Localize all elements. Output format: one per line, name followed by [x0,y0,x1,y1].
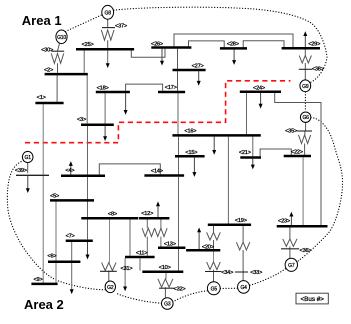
load arrow bus 6 [71,263,73,290]
bus 7 [66,239,93,242]
svg-text:<3>: <3> [77,117,86,123]
bus 8 [81,217,138,220]
generator G10 [56,30,67,44]
bus 38 tick [299,68,312,70]
bus 17 [158,91,185,94]
svg-text:<11>: <11> [136,251,148,257]
load arrow bus 39 [27,176,29,190]
wire 8-11 [129,219,131,255]
svg-text:<17>: <17> [165,85,177,91]
bus 12 [139,217,169,220]
load arrow bus 25 [107,50,109,64]
wire 1-2 [56,75,58,102]
svg-text:<37>: <37> [115,23,127,29]
boundary dotted G3 to G2 [115,293,161,303]
svg-text:G2: G2 [107,285,114,291]
wire bus8 to W31 [109,219,111,262]
bus 20 [186,249,220,252]
bus 14 [144,174,184,177]
transformer W 12-13 [155,228,168,236]
transformer W 2-30 [51,53,64,63]
bus 9 [31,283,57,286]
wire 22-23 [302,157,304,225]
svg-text:Area 1: Area 1 [22,13,62,28]
wire W35 to bus 22 [304,144,306,155]
svg-text:<39>: <39> [15,168,27,174]
svg-text:<22>: <22> [291,150,303,156]
svg-text:G3: G3 [164,302,171,308]
bus 31 tick [100,270,117,272]
svg-text:Area 2: Area 2 [24,297,64,312]
transformer W 23-36 [283,239,297,247]
load arrow bus 23 up [290,215,292,225]
bus 19 [208,224,251,227]
wire 4-14 elbow [99,164,160,175]
wire bus10 to W32 [165,273,167,279]
bus 36 tick [281,248,299,250]
wire 16-24 [246,93,248,134]
bus 39 [16,174,49,176]
svg-text:<20>: <20> [202,244,214,250]
wire 26-28 [189,41,225,47]
legend box Bus # [296,293,328,304]
wire W32 to tick32 to G3 [164,287,166,297]
bus 25 [76,48,134,51]
wire W12a to bus 11 [146,237,148,256]
bus 5 [50,199,94,202]
bus 15 [175,155,205,158]
wire G6 to tick35 [305,122,307,131]
generator G2 [105,281,115,293]
wire W38 to tick38 to G9 [304,63,306,80]
bus 6 [48,261,80,264]
bus 1 [35,102,63,105]
transformer W 10-32 [158,279,173,287]
svg-text:<5>: <5> [50,194,59,200]
wire 28-29 [243,41,284,48]
wire W31 to tick31 to G2 [108,271,110,281]
wire bus19 to W33 [242,226,244,242]
transformer W 12-11 [142,228,155,236]
wire 7-6 [71,242,73,261]
wire 5-6 [55,202,57,261]
boundary dotted G5 to G3 [173,291,208,302]
svg-text:<25>: <25> [82,42,94,48]
svg-text:<4>: <4> [65,168,74,174]
wire W12b to bus 13 [160,237,162,247]
boundary dotted G7 to G4 [250,269,286,285]
wire 16-15-14-13-10 spine [178,137,180,156]
svg-text:G8: G8 [105,10,112,16]
svg-text:G10: G10 [57,35,66,41]
wire G8 to bus37 tick [107,19,109,27]
svg-text:G7: G7 [288,263,295,269]
load arrow bus 18 [125,93,127,111]
wire 16-21 [252,137,254,157]
svg-text:G5: G5 [211,286,218,292]
svg-text:<14>: <14> [151,169,163,175]
bus 28 [220,47,247,50]
wire 3-4 [87,126,89,174]
wire 2-25 [83,50,85,72]
load arrow bus 26 [161,49,163,62]
bus 2 [45,73,88,76]
bus 18 [96,91,130,94]
bus 37 tick [102,27,115,29]
transformer W 8-31 [102,263,116,271]
svg-text:<12>: <12> [141,211,153,217]
bus 30 tick [51,50,64,52]
svg-text:<32>: <32> [174,286,186,292]
wire 27-17 [177,71,179,91]
bus 24 [240,91,281,94]
transformer W 19-20 [207,232,221,240]
svg-text:<26>: <26> [151,42,163,48]
bus 13 [158,247,185,250]
svg-text:<Bus #>: <Bus #> [300,296,324,303]
wire 17-18 elbow [126,84,163,91]
wire 21-22 elbow [260,149,291,156]
bus 27 [173,69,206,72]
boundary dotted G4 to G5 [221,287,238,289]
boundary dotted G9 to G6 [304,92,306,112]
svg-text:<28>: <28> [227,41,239,47]
wire bus20 to W34 [213,252,215,262]
bus 3 [81,123,114,126]
svg-text:<27>: <27> [192,64,204,70]
load arrow bus 11 [124,258,126,287]
load arrow bus 16 [213,137,215,151]
load arrow bus 24 [260,93,262,105]
load arrow bus 15 [193,157,195,173]
generator G5 [207,282,220,295]
svg-text:<23>: <23> [278,219,290,225]
svg-text:<35>: <35> [285,129,297,135]
wire W36 to tick36 to G7 [289,246,291,258]
svg-text:<33>: <33> [250,270,262,276]
wire 23-24 route [275,93,321,225]
wire 39-9 [42,176,44,283]
svg-text:G6: G6 [302,115,309,121]
generator G1 [22,151,33,162]
bus 29 [282,47,320,50]
bus 22 [284,155,311,158]
transformer W 29-38 [299,56,311,64]
transformer W 20-34 [207,262,221,270]
bus 11 [125,256,155,259]
load arrow bus 20 up [198,231,200,249]
bus 26 [151,46,191,49]
svg-text:G1: G1 [25,155,32,161]
generator G9 [300,80,311,92]
svg-text:G9: G9 [302,84,309,90]
svg-text:<9>: <9> [33,277,42,283]
bus 33 tick [235,271,248,273]
svg-text:G4: G4 [240,285,247,291]
svg-text:<21>: <21> [239,150,251,156]
svg-text:<19>: <19> [235,218,247,224]
svg-text:<13>: <13> [164,241,176,247]
svg-text:<7>: <7> [66,233,75,239]
wire 4-5-8-7 [87,177,89,240]
load arrow bus 7 [87,242,89,255]
wire 6-9 [55,263,57,283]
wire 16-19 [227,137,229,224]
svg-text:<38>: <38> [312,67,324,73]
generator G3 [162,298,174,310]
bus 35 tick [297,130,312,132]
bus 21 [240,156,261,159]
wire W1920 to bus 20 [213,240,215,249]
svg-text:<29>: <29> [308,42,320,48]
bus 16 [172,134,260,137]
wire W33 to tick33 to G4 [242,250,244,281]
svg-text:<36>: <36> [300,248,312,254]
area boundary red dashed [25,81,291,143]
boundary dotted G8 to G9 top-right sweep [114,7,327,82]
wire W30 to bus 2 [57,63,59,73]
generator G4 [238,281,250,294]
svg-text:<34>: <34> [221,270,233,276]
wire 25-26 connector [131,49,165,58]
wire 16-17 [177,93,179,134]
generator G7 [285,258,297,271]
bus 34 tick [205,271,221,273]
load arrow bus 4 up [70,165,72,175]
wire W37 to bus 25 [107,40,109,48]
svg-text:<30>: <30> [41,47,53,53]
wire 2-3 [86,75,88,123]
svg-text:<16>: <16> [184,128,196,134]
svg-text:<1>: <1> [37,95,46,101]
load arrow bus 28 [233,50,235,62]
wire W34 to tick34 to G5 [213,270,215,282]
svg-text:<10>: <10> [159,265,171,271]
boundary dotted G2 around bottom-left to G1 [7,161,105,290]
wire bus29 to W38 [304,49,306,55]
load arrow bus 12 up [157,205,159,217]
svg-text:<24>: <24> [253,85,265,91]
wire G1 to bus 39 [27,163,29,174]
generator G6 [300,112,310,122]
bus 23 [277,225,328,228]
wire bus23 to W36 [289,228,291,239]
bus 32 tick [159,287,174,289]
wire 3-18 [104,93,106,123]
svg-text:<15>: <15> [185,150,197,156]
load arrow bus 3 [104,126,106,137]
svg-text:<2>: <2> [44,67,53,73]
wire 26-29 overhead [174,34,293,47]
wire 26-27 [177,49,179,69]
wire 12 to W12b [160,219,162,228]
svg-text:<8>: <8> [108,211,117,217]
bus 10 [142,271,183,274]
transformer W 22-35 [299,135,311,144]
wire 12 to W12a [146,219,148,228]
transformer W 25-37 [101,30,114,40]
wire 1-39 [42,104,44,174]
wire 10-11 [139,258,141,270]
wire bus19 to W1920 [213,226,215,232]
generator G8 [102,5,114,19]
transformer W 19-33 [236,242,249,250]
load arrow bus 29 up [304,35,306,47]
wire G10 to bus30 tick [58,43,60,51]
svg-text:<18>: <18> [97,86,109,92]
svg-text:<6>: <6> [47,254,56,260]
bus 4 [61,174,105,177]
load arrow bus 21 [252,159,254,166]
svg-text:<31>: <31> [121,266,133,272]
load arrow bus 27 [198,71,200,82]
boundary dotted G10 to G8 [66,15,103,32]
boundary dotted G6 to G7 right bulge [298,118,343,262]
